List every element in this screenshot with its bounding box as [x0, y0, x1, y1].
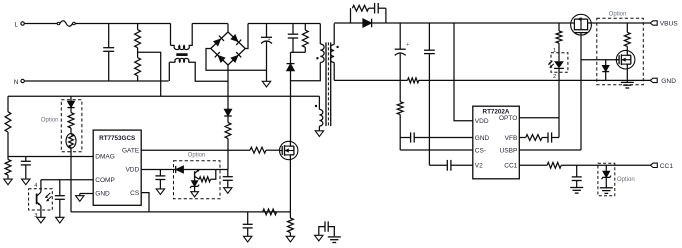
- wire secondary rail to rectifier: [334, 22, 350, 24]
- terminal VBUS: [650, 21, 678, 28]
- svg-text:Option: Option: [617, 177, 635, 183]
- fusible resistor R8 (OVP): [66, 128, 76, 212]
- svg-text:COMP: COMP: [95, 177, 115, 184]
- svg-text:GND: GND: [661, 78, 676, 85]
- wire DC+ rail: [248, 23, 320, 25]
- resistor R7 (OVP): [68, 113, 74, 128]
- ground (CC1 cap, earth): [570, 188, 583, 194]
- resistor R14 (CS- sense): [397, 80, 403, 150]
- capacitor C10 (output, polarized): [395, 23, 410, 80]
- optocoupler U3 phototransistor (pins 4,3): [29, 180, 53, 219]
- ground (bulk cap): [262, 81, 270, 87]
- wire bridge bottom to startup diode: [227, 65, 229, 109]
- transformer T1 secondary: [330, 24, 338, 81]
- capacitor C7 (VDD): [223, 170, 233, 188]
- resistor R9 (gate): [250, 147, 280, 153]
- ground (CS filter cap): [244, 236, 252, 242]
- capacitor C11 (output): [424, 23, 435, 80]
- svg-text:GND: GND: [95, 191, 110, 198]
- wire Q1 source to sense: [289, 160, 291, 218]
- optocoupler U3 LED (pins 1,2): [548, 48, 568, 80]
- svg-text:4: 4: [34, 183, 37, 189]
- ground (VDD cap 2): [224, 188, 232, 194]
- ground (sense resistor): [286, 236, 294, 242]
- wire CS pin routing: [141, 193, 149, 212]
- ground (CC1 zener, earth): [600, 188, 613, 194]
- resistor R3 (clamp): [302, 24, 308, 53]
- wire GND pin to ground: [80, 194, 93, 196]
- wire divider tap to aux rail: [138, 52, 161, 96]
- svg-text:CS-: CS-: [475, 147, 486, 154]
- wire OPTO line: [519, 68, 559, 137]
- diode D8 (CC1 zener): [602, 165, 611, 188]
- transistor Q4 (PNP turn-off): [195, 170, 216, 182]
- diode D4 (turn-off): [176, 166, 184, 173]
- svg-text:2: 2: [553, 74, 556, 80]
- svg-text:L: L: [15, 21, 19, 28]
- wire Q2 to VBUS terminal: [591, 22, 650, 24]
- option box (VBUS discharge): [597, 12, 644, 85]
- wire N to choke: [24, 80, 168, 82]
- transistor Q1 (main MOSFET): [280, 141, 298, 159]
- diode D1 (clamp): [287, 64, 295, 142]
- capacitor C15 (CC1): [572, 165, 582, 187]
- svg-text:VFB: VFB: [505, 135, 518, 142]
- ground (U1 GND): [76, 196, 84, 202]
- svg-text:VBUS: VBUS: [660, 21, 679, 28]
- svg-text:CC1: CC1: [504, 163, 517, 170]
- wire Q3 source to ground: [626, 69, 628, 82]
- ground (turn-off): [191, 192, 199, 197]
- option box (CC1 clamp): [598, 163, 635, 196]
- resistor R10 (CS series): [263, 209, 277, 215]
- svg-text:Option: Option: [41, 117, 59, 123]
- ground (Q3 source, earth): [621, 82, 634, 88]
- svg-text:GND: GND: [475, 135, 490, 142]
- capacitor CX1 (X-cap across line): [103, 24, 114, 82]
- transformer T1 primary: [316, 24, 324, 63]
- wire fuse to choke (top rail): [75, 23, 170, 25]
- wire GATE line: [141, 149, 250, 151]
- diode D5 (zener, turn-off): [190, 178, 199, 191]
- diode D2 (startup): [224, 109, 232, 122]
- resistor R12 (snubber): [351, 5, 375, 23]
- svg-text:OPTO: OPTO: [499, 115, 517, 122]
- capacitor C9 (snubber): [375, 3, 386, 23]
- terminal GND: [650, 78, 676, 85]
- wire VDD line: [141, 169, 228, 171]
- terminal L (AC line input): [15, 21, 25, 28]
- transformer T1 auxiliary winding: [315, 96, 323, 131]
- wire secondary ground rail: [334, 79, 650, 81]
- wire gate link: [581, 59, 618, 61]
- controller U2 RT7202A: [473, 106, 520, 179]
- capacitor C16 (Y-cap primary-secondary): [319, 221, 335, 236]
- svg-text:USBP: USBP: [500, 147, 518, 154]
- wire CS line: [71, 211, 291, 213]
- wire USBP to pass gate: [519, 35, 581, 150]
- resistor R1 (line divider upper): [135, 24, 141, 58]
- wire COMP line: [41, 179, 93, 181]
- resistor R11 (current sense): [288, 218, 294, 236]
- svg-text:+: +: [406, 42, 409, 48]
- resistor R15 (VFB): [519, 135, 542, 141]
- resistor R16 (opto LED bias): [556, 23, 562, 61]
- svg-text:V2: V2: [475, 163, 483, 170]
- transistor Q3 (discharge MOSFET): [616, 50, 635, 69]
- svg-text:DMAG: DMAG: [95, 154, 115, 161]
- ground (VDD cap 1): [156, 189, 164, 195]
- wire VBUS rail: [386, 22, 571, 24]
- capacitor C13 (V2 coupling): [429, 160, 472, 171]
- terminal N (AC neutral input): [14, 79, 24, 86]
- ground (COMP cap): [56, 217, 64, 223]
- svg-text:RT7753GCS: RT7753GCS: [99, 135, 135, 142]
- capacitor C6 (VDD): [155, 170, 165, 189]
- terminal CC1: [650, 163, 673, 170]
- transformer T1 core: [326, 42, 331, 126]
- wire V2 sense riser: [428, 80, 430, 165]
- svg-text:VDD: VDD: [125, 167, 139, 174]
- svg-text:VDD: VDD: [475, 118, 489, 125]
- ground (Y-cap secondary, earth): [328, 237, 341, 243]
- capacitor C3 (clamp): [288, 24, 299, 53]
- wire choke to bridge top: [192, 23, 228, 25]
- capacitor C4 (DMAG filter): [21, 157, 31, 180]
- svg-text:Option: Option: [188, 153, 206, 159]
- svg-text:N: N: [14, 79, 19, 86]
- resistor R5 (DMAG divider upper): [5, 112, 11, 157]
- option box (turn-off circuit): [174, 153, 221, 199]
- wire CC1 line: [561, 164, 650, 166]
- wire aux rail to OVP diode: [70, 96, 72, 101]
- option box (OVP chain): [41, 100, 82, 152]
- controller U1 RT7753GCS: [93, 130, 141, 205]
- capacitor C12 (GND-CS filter): [400, 132, 473, 142]
- svg-text:Option: Option: [609, 12, 627, 18]
- svg-text:CS: CS: [130, 190, 140, 197]
- svg-text:GATE: GATE: [122, 147, 140, 154]
- capacitor C14 (VFB): [542, 132, 559, 142]
- common-mode choke L1: [169, 24, 228, 82]
- capacitor C2 (bulk, polarized): [261, 24, 272, 82]
- fuse F1: [57, 21, 75, 27]
- wire aux/DMAG rail: [8, 96, 319, 112]
- transistor Q2 (VBUS pass MOSFET): [571, 14, 592, 35]
- resistor R4 (startup): [225, 123, 231, 170]
- ground (DMAG filter cap): [22, 179, 30, 185]
- diode D3 (OVP): [67, 101, 74, 112]
- wire bridge AC top lead: [227, 24, 229, 33]
- ground (opto emitter): [37, 217, 45, 223]
- wire L to fuse: [24, 23, 57, 25]
- capacitor C5 (COMP): [55, 180, 65, 218]
- svg-text:1: 1: [553, 48, 556, 54]
- resistor R13 (current shunt): [408, 78, 419, 83]
- wire DMAG line: [8, 156, 93, 158]
- wire CS- line: [400, 149, 473, 151]
- resistor R18 (CC1 series): [519, 162, 561, 168]
- wire bridge negative to bulk cap ground node: [206, 49, 267, 71]
- wire clamp bottom join: [291, 52, 306, 63]
- bridge rectifier BD1: [211, 32, 246, 65]
- ground (DMAG divider): [4, 179, 12, 185]
- svg-text:CC1: CC1: [660, 163, 674, 170]
- resistor R17 (discharge pull-up): [624, 23, 630, 50]
- resistor R6 (DMAG divider lower): [5, 157, 11, 180]
- wire VDD riser: [454, 23, 473, 121]
- wire switch node to primary: [291, 63, 321, 81]
- diode D7 (gate zener): [602, 60, 609, 81]
- ground (aux winding): [315, 131, 323, 137]
- resistor R2 (line divider lower): [135, 58, 141, 81]
- capacitor C8 (CS filter): [243, 212, 253, 236]
- wire bridge positive output: [245, 24, 248, 49]
- svg-text:+: +: [268, 37, 271, 43]
- ground (Y-cap primary): [315, 235, 323, 241]
- diode D6 (output rectifier): [351, 19, 386, 28]
